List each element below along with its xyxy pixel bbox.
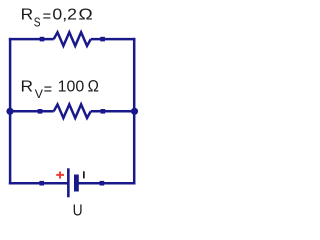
svg-text:RV=100Ω: RV=100Ω — [21, 78, 99, 101]
svg-text:U: U — [73, 203, 83, 220]
svg-text:RS=0,2Ω: RS=0,2Ω — [21, 7, 93, 30]
